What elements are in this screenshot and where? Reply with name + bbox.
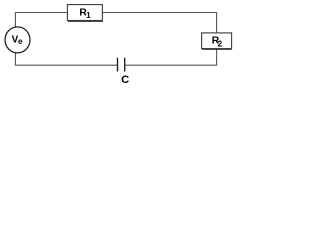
wire from source top to R1 (left segment of top net) [15, 13, 67, 28]
wire capacitor left plate to bottom-left corner to source bottom [15, 53, 117, 65]
svg-text:2: 2 [218, 38, 223, 48]
resistor R1 bottom shadow [68, 20, 103, 22]
wire R2 bottom to bottom-right corner to capacitor right plate [125, 49, 217, 66]
wire from R1 to top-right corner down to R2 top [102, 13, 216, 33]
resistor R1 [67, 5, 102, 21]
svg-text:C: C [121, 74, 129, 86]
voltage source Ve [5, 27, 30, 53]
resistor R2 [202, 33, 232, 49]
svg-text:1: 1 [86, 10, 91, 20]
capacitor C right plate [124, 58, 126, 72]
svg-text:e: e [18, 36, 23, 46]
resistor R2 bottom shadow [202, 48, 231, 50]
capacitor C left plate [117, 58, 119, 72]
